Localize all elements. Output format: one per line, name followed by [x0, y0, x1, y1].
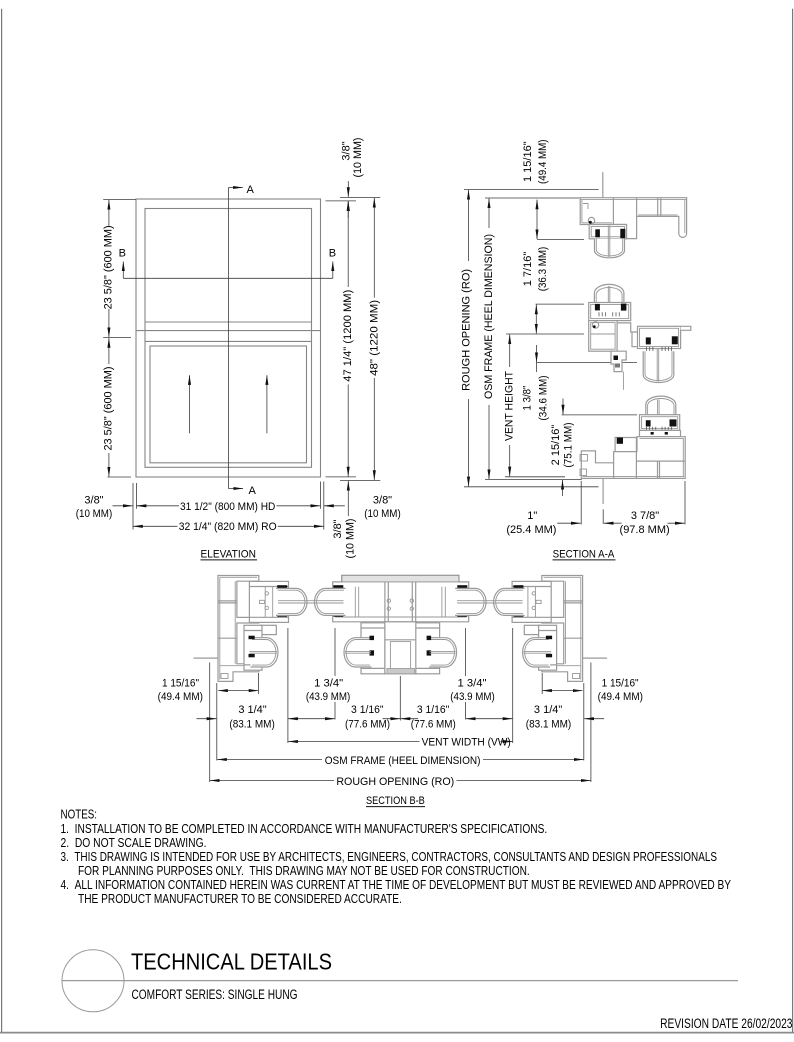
lower glass panes: [250, 650, 278, 652]
sill glass tub: [646, 396, 676, 425]
dim row2 right outside arrow: [584, 718, 604, 720]
stem inner box: [390, 642, 410, 672]
center lower glazing stop top: [370, 636, 375, 640]
ext 1 15/16 bottom: [537, 239, 584, 241]
meeting rail module: [589, 284, 691, 389]
svg-text:OSM FRAME (HEEL DIMENSION): OSM FRAME (HEEL DIMENSION): [325, 755, 481, 767]
sill nose notch top: [580, 455, 588, 462]
right jamb module (mirror): [494, 576, 608, 682]
dim VW arrow right: [501, 741, 513, 743]
head frame inner top line: [580, 199, 686, 201]
svg-text:B: B: [119, 247, 126, 259]
center upper glazing stop top: [333, 585, 343, 588]
sill glazing stop left: [646, 420, 651, 426]
svg-text:(10 MM): (10 MM): [344, 519, 356, 559]
center lower tub inner: [346, 640, 370, 666]
dim 1 7/16 line: [535, 305, 537, 334]
dim 47 1/4 segment b: [347, 384, 349, 476]
stem screw circle b: [417, 643, 421, 647]
latch black mark: [614, 356, 619, 361]
center lower glass tub: [344, 638, 371, 667]
svg-text:(34.6 MM): (34.6 MM): [538, 376, 550, 421]
logo circle: [62, 950, 124, 1012]
sill glass panes: [657, 400, 659, 425]
center interlock webs: [384, 582, 386, 622]
ext sill fin vertical: [602, 509, 604, 524]
lower rail gasket hatch: [647, 347, 672, 351]
check rail box inner: [591, 323, 615, 350]
upper glass tub inner: [278, 590, 305, 613]
sill black square: [617, 438, 623, 444]
ext vent top: [506, 333, 584, 335]
lower sash stile box: [244, 625, 262, 670]
dim RO segment b: [278, 525, 324, 527]
section line B-B horizontal: [123, 277, 332, 279]
RO arm: [194, 657, 219, 659]
dim 1 15/16 line: [536, 200, 538, 239]
svg-text:OSM FRAME (HEEL DIMENSION): OSM FRAME (HEEL DIMENSION): [483, 234, 495, 399]
check step box: [260, 625, 276, 634]
svg-text:(49.4 MM): (49.4 MM): [537, 139, 549, 184]
svg-text:3. THIS DRAWING IS INTENDED F: 3. THIS DRAWING IS INTENDED FOR USE BY A…: [61, 850, 718, 864]
dim OSM segment a: [488, 199, 490, 229]
svg-text:THE PRODUCT MANUFACTURER TO BE: THE PRODUCT MANUFACTURER TO BE CONSIDERE…: [78, 892, 402, 906]
svg-text:ROUGH OPENING (RO): ROUGH OPENING (RO): [461, 269, 473, 391]
latch gray mark: [615, 364, 620, 368]
dim RO segment a: [468, 190, 470, 261]
dim 3/8 left leader: [113, 505, 133, 507]
section arrow A top: [229, 187, 243, 189]
meeting screw boss: [592, 322, 598, 328]
upper sash glass bottom line: [145, 321, 312, 323]
head glazing stop right: [620, 229, 625, 238]
upper sash bottom rail: [589, 303, 631, 321]
dim RO line right: [457, 780, 591, 782]
ext RO bottom: [464, 486, 599, 488]
head glass tub: [595, 239, 625, 258]
dim HD segment a: [137, 505, 179, 507]
upper stile bottom cap line: [249, 616, 288, 618]
vent rail sub box: [640, 430, 681, 436]
ext vertical 465 right upper: [465, 628, 467, 676]
sill back-left box: [615, 438, 639, 452]
svg-text:(25.4 MM): (25.4 MM): [506, 524, 556, 536]
page left border: [1, 9, 3, 1032]
jamb lip notch: [221, 674, 228, 679]
dim RO segment b: [468, 399, 470, 486]
title SECTION A-A underline: [553, 559, 616, 561]
svg-text:(49.4 MM): (49.4 MM): [158, 691, 203, 703]
ext vertical 335 left lower: [334, 702, 336, 720]
head frame top-left notch: [583, 204, 588, 210]
lower sash top rail: [638, 326, 681, 348]
meeting glazing stop right: [621, 304, 627, 311]
svg-text:(49.4 MM): (49.4 MM): [598, 691, 643, 703]
stem screw circle c: [380, 666, 384, 670]
dim 48 segment a: [373, 198, 375, 298]
sill fin: [602, 478, 604, 504]
page right border: [792, 9, 794, 1032]
lower sash top line: [145, 340, 312, 342]
window outer frame: [136, 199, 321, 477]
head module: [580, 172, 686, 258]
svg-text:(83.1 MM): (83.1 MM): [526, 719, 571, 731]
svg-text:ELEVATION: ELEVATION: [201, 548, 256, 560]
svg-text:NOTES:: NOTES:: [61, 808, 98, 822]
center stem: [385, 622, 417, 674]
jamb frame: [218, 576, 259, 682]
upper stile top cap line: [249, 586, 288, 588]
check rail web: [591, 333, 615, 335]
dim OSM line right: [483, 759, 584, 761]
svg-text:(77.6 MM): (77.6 MM): [345, 719, 390, 731]
head frame web mid: [636, 198, 638, 216]
vent bottom rail: [640, 415, 680, 431]
svg-text:4. ALL INFORMATION CONTAINED: 4. ALL INFORMATION CONTAINED HEREIN WAS …: [61, 878, 732, 892]
svg-text:1 15/16": 1 15/16": [522, 141, 534, 182]
dim HD segment b: [277, 505, 321, 507]
dim row1 1 15/16 left line: [218, 690, 258, 692]
ext line left mid: [103, 337, 131, 339]
center lower glass panes: [345, 650, 371, 652]
latch trace line: [622, 372, 624, 390]
svg-text:TECHNICAL DETAILS: TECHNICAL DETAILS: [131, 949, 332, 975]
NOTES: [61, 808, 732, 906]
svg-text:1 3/8": 1 3/8": [522, 385, 534, 410]
dim 23 5/8 lower segment a: [108, 338, 110, 364]
ext vertical OSM left: [216, 683, 218, 761]
svg-text:3 1/16": 3 1/16": [417, 704, 450, 716]
center lower box cap lines: [361, 627, 385, 629]
jamb foot inner line: [220, 665, 257, 667]
center stile web pair: [354, 587, 356, 617]
section arrow B left: [122, 262, 124, 279]
center upper glass tub: [315, 588, 346, 615]
dim RO line left: [210, 780, 334, 782]
svg-text:1 3/4": 1 3/4": [458, 678, 487, 690]
dim 48 segment b: [373, 378, 375, 480]
dim row2 mid-right line: [466, 718, 513, 720]
ext OSM bottom: [485, 479, 582, 481]
svg-text:3 1/4": 3 1/4": [534, 704, 562, 716]
jamb frame inner left wall: [219, 577, 221, 679]
ext OSM top: [485, 197, 579, 199]
ext vent bottom: [505, 476, 565, 478]
center top box inner bottom: [335, 616, 467, 618]
upper glass tub: [276, 588, 307, 615]
head sash rail inner: [591, 227, 624, 237]
svg-text:3/8": 3/8": [340, 141, 352, 160]
sill black mark small: [638, 447, 641, 451]
svg-text:A: A: [247, 184, 255, 196]
svg-text:3/8": 3/8": [84, 495, 103, 507]
dim 2 15/16 arrow bottom: [562, 480, 564, 496]
upper stile web b: [272, 587, 274, 618]
dim VW line left: [288, 741, 419, 743]
head frame body: [580, 198, 686, 239]
svg-text:A: A: [249, 485, 257, 497]
svg-text:31 1/2" (800 MM) HD: 31 1/2" (800 MM) HD: [180, 501, 275, 513]
svg-text:SECTION B-B: SECTION B-B: [366, 795, 425, 807]
svg-text:(83.1 MM): (83.1 MM): [229, 719, 274, 731]
section arrow B right: [332, 262, 334, 279]
stem bottom band: [387, 668, 415, 673]
svg-text:FOR PLANNING PURPOSES ONLY. T: FOR PLANNING PURPOSES ONLY. THIS DRAWING…: [78, 864, 530, 878]
svg-text:(43.9 MM): (43.9 MM): [450, 691, 494, 703]
SECTION A-A: [461, 139, 691, 560]
dim 23 5/8 upper segment b: [108, 309, 110, 337]
dim OSM segment b: [488, 405, 490, 479]
dim 1 inch line: [557, 522, 581, 524]
svg-text:1 7/16": 1 7/16": [522, 252, 534, 287]
lower sash rail flange: [681, 326, 691, 330]
ext vertical 542 right: [541, 673, 543, 694]
upper glass panes left: [278, 600, 344, 602]
meeting lower glass panes: [656, 349, 658, 382]
svg-text:3/8": 3/8": [373, 495, 392, 507]
ext vertical RO left: [132, 483, 134, 530]
dim VENT HEIGHT segment a: [509, 335, 511, 368]
center lower glazing stop bottom: [370, 650, 375, 655]
upper sash stile box: [249, 581, 288, 622]
dim row2 center arrow right: [401, 718, 419, 720]
lower glazing stop bottom: [249, 654, 255, 657]
svg-text:2 15/16": 2 15/16": [550, 425, 562, 466]
sill body: [581, 437, 685, 479]
lower sash glass rect: [150, 346, 307, 463]
head screw boss dot: [589, 221, 592, 224]
center left half: [315, 582, 391, 674]
svg-text:(77.6 MM): (77.6 MM): [411, 719, 456, 731]
head frame right inner wall: [684, 200, 686, 233]
ext line right RO top: [340, 196, 380, 198]
ext vertical VW left: [287, 628, 289, 743]
page bottom border: [0, 1032, 794, 1034]
head frame web double: [657, 198, 659, 216]
svg-text:3 1/4": 3 1/4": [238, 704, 266, 716]
vent direction arrow right: [266, 375, 268, 433]
stem screw circle d: [417, 666, 421, 670]
dim 3/8 top arrow lower: [347, 201, 349, 218]
svg-text:(97.8 MM): (97.8 MM): [620, 524, 670, 536]
dim 3/8 right leader: [324, 505, 345, 507]
upper glazing stop bottom: [277, 614, 287, 617]
dim 47 1/4 segment a: [347, 201, 349, 287]
title SECTION B-B underline: [366, 806, 425, 808]
ext vertical 258 left: [257, 673, 259, 694]
upper glazing stop top: [277, 585, 287, 588]
dim row2 mid-left line: [288, 718, 335, 720]
head nailing fin: [602, 172, 604, 198]
ext vertical center: [399, 676, 401, 721]
svg-text:VENT WIDTH (VW): VENT WIDTH (VW): [422, 737, 511, 749]
ext vertical OSM right: [583, 683, 585, 761]
meeting lower tub inner: [645, 351, 672, 380]
vent direction arrow left: [189, 375, 191, 433]
ext line right frame bottom: [326, 476, 357, 478]
svg-text:48" (1220 MM): 48" (1220 MM): [368, 300, 380, 376]
meeting latch appendage: [611, 351, 626, 371]
ext line left top: [103, 198, 136, 200]
ext sill right vertical: [684, 481, 686, 525]
head frame web left: [612, 198, 614, 225]
center right half (mirror): [410, 582, 486, 674]
meeting lower glass tub: [643, 351, 674, 382]
center upper tub inner: [317, 590, 344, 613]
svg-text:2. DO NOT SCALE DRAWING.: 2. DO NOT SCALE DRAWING.: [61, 836, 207, 850]
section arrow A bottom: [229, 488, 244, 490]
svg-text:1": 1": [527, 510, 537, 522]
vent bottom rail inner: [642, 417, 678, 429]
svg-text:(10 MM): (10 MM): [364, 508, 401, 520]
ext vertical 465 right lower: [465, 702, 467, 720]
check rail upper line: [136, 330, 321, 332]
upper stile web a: [264, 587, 266, 618]
center lower sash box: [361, 623, 385, 674]
svg-text:(36.3 MM): (36.3 MM): [537, 247, 549, 292]
sill web b: [635, 437, 637, 479]
jamb top arm lip: [254, 581, 259, 586]
jamb slab inner right wall: [234, 581, 236, 664]
ext meeting bottom: [536, 362, 637, 364]
sill inner right wall: [682, 438, 684, 476]
sill web double: [657, 461, 659, 478]
upper stile screw circle b: [265, 606, 268, 609]
dim 1 3/8 arrow lower: [562, 399, 564, 415]
dim 23 5/8 lower segment b: [108, 453, 110, 477]
stem top web: [385, 639, 417, 641]
svg-text:(10 MM): (10 MM): [76, 508, 113, 520]
center upper glazing stop bottom: [333, 614, 343, 617]
window inner frame: [145, 209, 312, 468]
weep slot left: [651, 432, 654, 435]
svg-text:47 1/4" (1200 MM): 47 1/4" (1200 MM): [342, 290, 354, 382]
sill inner bottom line: [583, 476, 685, 478]
head frame inner bottom right: [638, 214, 678, 216]
ext line right RO bottom: [340, 479, 380, 481]
dim 1 3/8 stub: [536, 363, 538, 372]
svg-text:3 1/16": 3 1/16": [351, 704, 384, 716]
ext RO top: [464, 189, 599, 191]
lower rail glazing stop right: [672, 336, 678, 344]
dim 1 3/8 arrow upper: [536, 345, 538, 362]
meeting upper glass panes: [607, 286, 609, 312]
dim OSM line left: [217, 759, 322, 761]
dim VENT HEIGHT segment b: [509, 445, 511, 476]
sill horizontal web: [636, 460, 685, 462]
meeting upper glass tub: [594, 284, 624, 313]
ext vertical RO right: [590, 663, 592, 783]
lower rail glazing stop left: [646, 337, 651, 344]
ext vertical RO left: [209, 663, 211, 783]
upper sash bottom rail inner: [591, 305, 629, 319]
dim 3 7/8 segment b: [668, 522, 685, 524]
sill module: [580, 396, 685, 504]
svg-text:REVISION DATE 26/02/2023: REVISION DATE 26/02/2023: [660, 1016, 792, 1031]
ext vertical RO right: [323, 482, 325, 530]
ext 1 7/16 top: [536, 303, 585, 305]
lower glazing stop top: [249, 636, 255, 640]
meeting glazing stop left: [595, 304, 600, 311]
sill glass tub inner: [648, 398, 674, 425]
title separator line: [62, 980, 739, 982]
meeting screw dot: [593, 325, 596, 328]
weep slot right: [665, 432, 668, 435]
sill gasket hatch: [647, 427, 672, 430]
svg-text:3/8": 3/8": [332, 519, 344, 538]
svg-text:3 7/8": 3 7/8": [631, 510, 659, 522]
svg-text:23 5/8" (600 MM): 23 5/8" (600 MM): [103, 367, 115, 451]
sill web a: [613, 463, 615, 479]
upper glass panes right: [457, 600, 522, 602]
svg-text:1 3/4": 1 3/4": [314, 678, 343, 690]
svg-text:COMFORT SERIES: SINGLE HUNG: COMFORT SERIES: SINGLE HUNG: [132, 987, 298, 1002]
ext vertical HD right: [320, 482, 322, 509]
center screw circle b: [387, 607, 390, 610]
ext vertical 335 left upper: [334, 628, 336, 676]
dim 3/8 top arrow upper: [347, 181, 349, 197]
svg-text:(75.1 MM): (75.1 MM): [563, 423, 575, 468]
sill nose notch bottom: [580, 469, 587, 476]
svg-text:(43.9 MM): (43.9 MM): [306, 691, 350, 703]
ext vertical HD left: [135, 483, 137, 509]
upper stile tab: [260, 600, 265, 603]
ELEVATION: [76, 138, 401, 561]
ext vertical VW right: [512, 628, 514, 743]
svg-text:1. INSTALLATION TO BE COMPLET: 1. INSTALLATION TO BE COMPLETED IN ACCOR…: [61, 822, 548, 836]
head glass panes: [607, 226, 609, 257]
jamb frame web double: [218, 600, 237, 602]
stem screw circle a: [380, 643, 384, 647]
svg-text:1 15/16": 1 15/16": [162, 678, 199, 690]
jamb frame inner top line: [220, 576, 257, 578]
ext vent rail top: [562, 414, 637, 416]
left jamb module: [194, 576, 308, 682]
upper stile screw circle a: [265, 592, 268, 595]
meeting gasket hatch: [599, 312, 619, 316]
title ELEVATION underline: [201, 559, 258, 561]
SECTION B-B: [158, 575, 643, 807]
head glass tub inner: [596, 239, 622, 256]
ext line right frame top: [326, 200, 357, 202]
head glazing stop left: [595, 229, 600, 237]
meeting interlock step: [617, 323, 637, 347]
lower glass tub: [251, 638, 278, 667]
dim row2 left outside arrow: [197, 718, 217, 720]
head frame inner bottom left: [582, 222, 612, 224]
TITLE BLOCK: [62, 949, 793, 1032]
svg-text:23 5/8" (600 MM): 23 5/8" (600 MM): [103, 225, 115, 309]
section line A-A vertical: [228, 188, 230, 489]
dim row2 center arrow left: [383, 718, 401, 720]
lower stile cap lines: [244, 630, 262, 632]
center screw circle a: [387, 599, 390, 602]
center top cap fill: [342, 575, 459, 582]
lower glass tub inner: [252, 640, 276, 666]
svg-text:1 15/16": 1 15/16": [602, 678, 639, 690]
check rail box: [589, 321, 617, 352]
svg-text:B: B: [329, 247, 336, 259]
head screw boss circle: [588, 217, 594, 223]
dim row1 1 15/16 right line: [542, 690, 582, 692]
center module: [333, 575, 469, 674]
sill glazing stop right: [670, 419, 677, 426]
center top box: [333, 575, 469, 622]
svg-text:VENT HEIGHT: VENT HEIGHT: [504, 371, 516, 441]
svg-text:SECTION A-A: SECTION A-A: [553, 548, 615, 560]
lower sash rail inner: [640, 328, 679, 346]
dim 23 5/8 upper segment a: [108, 200, 110, 226]
